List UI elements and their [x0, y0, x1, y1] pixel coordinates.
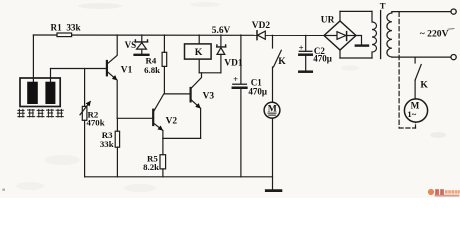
- resistor R2 arrow: [80, 102, 90, 115]
- terminal circle bottom: [451, 55, 456, 60]
- watermark tiny bottom row: [435, 195, 460, 197]
- svg-text:VD2: VD2: [252, 21, 271, 31]
- wire: node to V3 base: [164, 93, 190, 95]
- transistor V1 collector: [107, 35, 117, 64]
- transformer T core: [380, 11, 382, 59]
- wire: V3 emitter down: [200, 108, 202, 138]
- wire: flyback node line: [199, 72, 221, 74]
- wire: sensor to V1 base: [51, 68, 107, 70]
- wire: sensor right plate up: [50, 69, 52, 82]
- wire: C2 bottom stub: [305, 55, 307, 71]
- resistor R2 body (variable): [82, 106, 87, 120]
- transistor V3 collector: [191, 73, 202, 89]
- zener diode VD1 cathode bar: [217, 45, 226, 47]
- motor M (DC) body bars: [268, 113, 276, 115]
- motor M (DC) circle: [264, 102, 280, 118]
- ground bar under C2: [299, 70, 312, 73]
- zener diode VS triangle: [137, 43, 147, 50]
- ground bar at bridge: [356, 44, 368, 46]
- zener diode VS cathode bar: [135, 40, 148, 42]
- dashed return wire to motor bottom: [415, 122, 417, 128]
- svg-text:R1 33k: R1 33k: [51, 23, 82, 33]
- svg-text:~ 220V: ~ 220V: [420, 29, 449, 40]
- transistor V3 emitter with arrow: [191, 99, 200, 108]
- wire: top supply rail: [33, 34, 324, 36]
- zener diode VS anode lead: [141, 49, 143, 54]
- wire: switch to motor: [272, 67, 274, 102]
- text labels group: [51, 0, 449, 172]
- wire: VD1 anode down to node: [220, 54, 222, 72]
- svg-text:+: +: [299, 43, 304, 52]
- overline artifact after 220V: [448, 28, 455, 31]
- svg-text:470μ: 470μ: [248, 87, 267, 97]
- capacitor C1 top plate: [233, 83, 247, 85]
- resistor R3 body: [115, 131, 119, 147]
- wire: emitters join: [163, 137, 201, 139]
- svg-text:VS: VS: [125, 40, 137, 50]
- wire: bridge top lead: [339, 11, 341, 21]
- svg-text:K: K: [195, 47, 203, 58]
- svg-text:UR: UR: [321, 16, 335, 26]
- zener diode VS lead: [141, 35, 143, 41]
- wire: R4 bottom to V2 collector node: [163, 66, 165, 94]
- wire: mains switch drop: [414, 57, 416, 63]
- wire: R5 bottom to bus: [162, 169, 164, 177]
- resistor R5 body: [160, 155, 166, 169]
- diode VD2 cathode bar: [256, 31, 258, 40]
- svg-text:8.2k: 8.2k: [143, 162, 159, 172]
- svg-text:T: T: [380, 0, 386, 10]
- transistor V2 collector: [153, 94, 164, 112]
- transistor V2 emitter with arrow: [153, 123, 162, 130]
- wire: R2 bottom to bus: [84, 120, 86, 177]
- resistor R4 body: [162, 52, 167, 66]
- wire: V1 emitter node to V2 base: [117, 117, 152, 119]
- wire: C1 bottom to bus: [240, 88, 242, 177]
- watermark logo circle: [428, 189, 434, 195]
- svg-text:+: +: [233, 75, 238, 84]
- svg-text:K: K: [278, 56, 286, 67]
- resistor R1 body: [57, 33, 72, 37]
- wire: bottom ground bus: [85, 176, 273, 178]
- scan noise blobs: [2, 2, 446, 192]
- dashed return wire horizontal: [399, 127, 415, 129]
- zener diode VD1 lead: [220, 35, 222, 46]
- motor M 1~ circle: [404, 99, 427, 122]
- wire: bridge right vertex stub: [356, 36, 362, 46]
- svg-text:V2: V2: [166, 116, 178, 126]
- svg-text:V3: V3: [203, 92, 215, 102]
- svg-text:R4: R4: [146, 56, 157, 66]
- svg-text:VD1: VD1: [224, 59, 243, 69]
- transformer T secondary winding: [372, 11, 377, 58]
- wire: 220V bottom line: [392, 56, 451, 58]
- wire: C1 top drop: [240, 35, 242, 84]
- transformer T primary winding: [387, 12, 392, 57]
- svg-text:1~: 1~: [407, 109, 416, 119]
- wire: V2 emitter down: [162, 131, 164, 139]
- svg-text:M: M: [268, 103, 277, 114]
- wire: bridge bottom line to transformer: [340, 57, 372, 59]
- transistor V3 base bar: [190, 88, 192, 101]
- relay K coil box: [185, 44, 212, 59]
- wire: left drop from rail to sensor left plate: [32, 35, 34, 82]
- svg-text:K: K: [420, 79, 428, 90]
- svg-text:33k: 33k: [100, 139, 114, 149]
- capacitor C1 bottom plate: [233, 86, 247, 89]
- ground bar bottom: [266, 189, 281, 192]
- terminal circle top: [451, 9, 456, 14]
- svg-text:6.8k: 6.8k: [144, 65, 160, 75]
- wire: 220V top line: [392, 11, 451, 13]
- capacitor C2 bottom plate: [299, 53, 312, 56]
- wire: node down to R3: [116, 118, 118, 131]
- wire: join down to R5: [162, 138, 164, 154]
- switch K blade: [274, 50, 282, 67]
- bridge rectifier UR diamond: [324, 21, 356, 50]
- wire: motor bottom through bus to ground: [272, 118, 274, 190]
- diode VD2 triangle: [258, 31, 266, 39]
- label 湿度传感器 (sensor caption, drawn glyph blocks): [17, 109, 64, 118]
- capacitor C2 top plate: [299, 50, 312, 52]
- wire: C2 top drop: [305, 35, 307, 51]
- watermark small orange text: [445, 190, 460, 193]
- wire: bridge bottom lead: [339, 50, 341, 58]
- wire: relay K bottom: [198, 59, 200, 73]
- wire: R2 top drop: [84, 69, 86, 107]
- transistor V1 base bar: [106, 61, 108, 75]
- sensor right plate: [45, 82, 55, 104]
- watermark brand glyphs: [435, 189, 444, 194]
- svg-text:5.6V: 5.6V: [212, 26, 231, 36]
- svg-text:V1: V1: [121, 65, 133, 75]
- switch K drop from rail: [272, 35, 274, 48]
- wire: bridge top line to transformer: [340, 10, 372, 12]
- transistor V2 base bar: [152, 110, 154, 125]
- wire: relay K top drop: [198, 35, 200, 44]
- svg-text:470μ: 470μ: [313, 53, 332, 63]
- switch K (mains) blade: [415, 65, 421, 81]
- dashed return wire vertical: [398, 12, 400, 128]
- humidity sensor box: [20, 78, 60, 107]
- bridge UR inner diode: [325, 32, 355, 41]
- svg-text:470k: 470k: [87, 118, 105, 128]
- transistor V1 emitter with arrow: [107, 71, 117, 79]
- zener diode VD1 triangle: [217, 48, 225, 55]
- sensor left plate: [27, 82, 38, 104]
- wire: V1 emitter down: [116, 80, 118, 118]
- wire: switch to motor (mains): [414, 80, 416, 99]
- ground bar under VS: [135, 54, 149, 56]
- wire: R3 bottom to bus: [116, 147, 118, 177]
- wire: R4 top drop from rail: [163, 35, 165, 52]
